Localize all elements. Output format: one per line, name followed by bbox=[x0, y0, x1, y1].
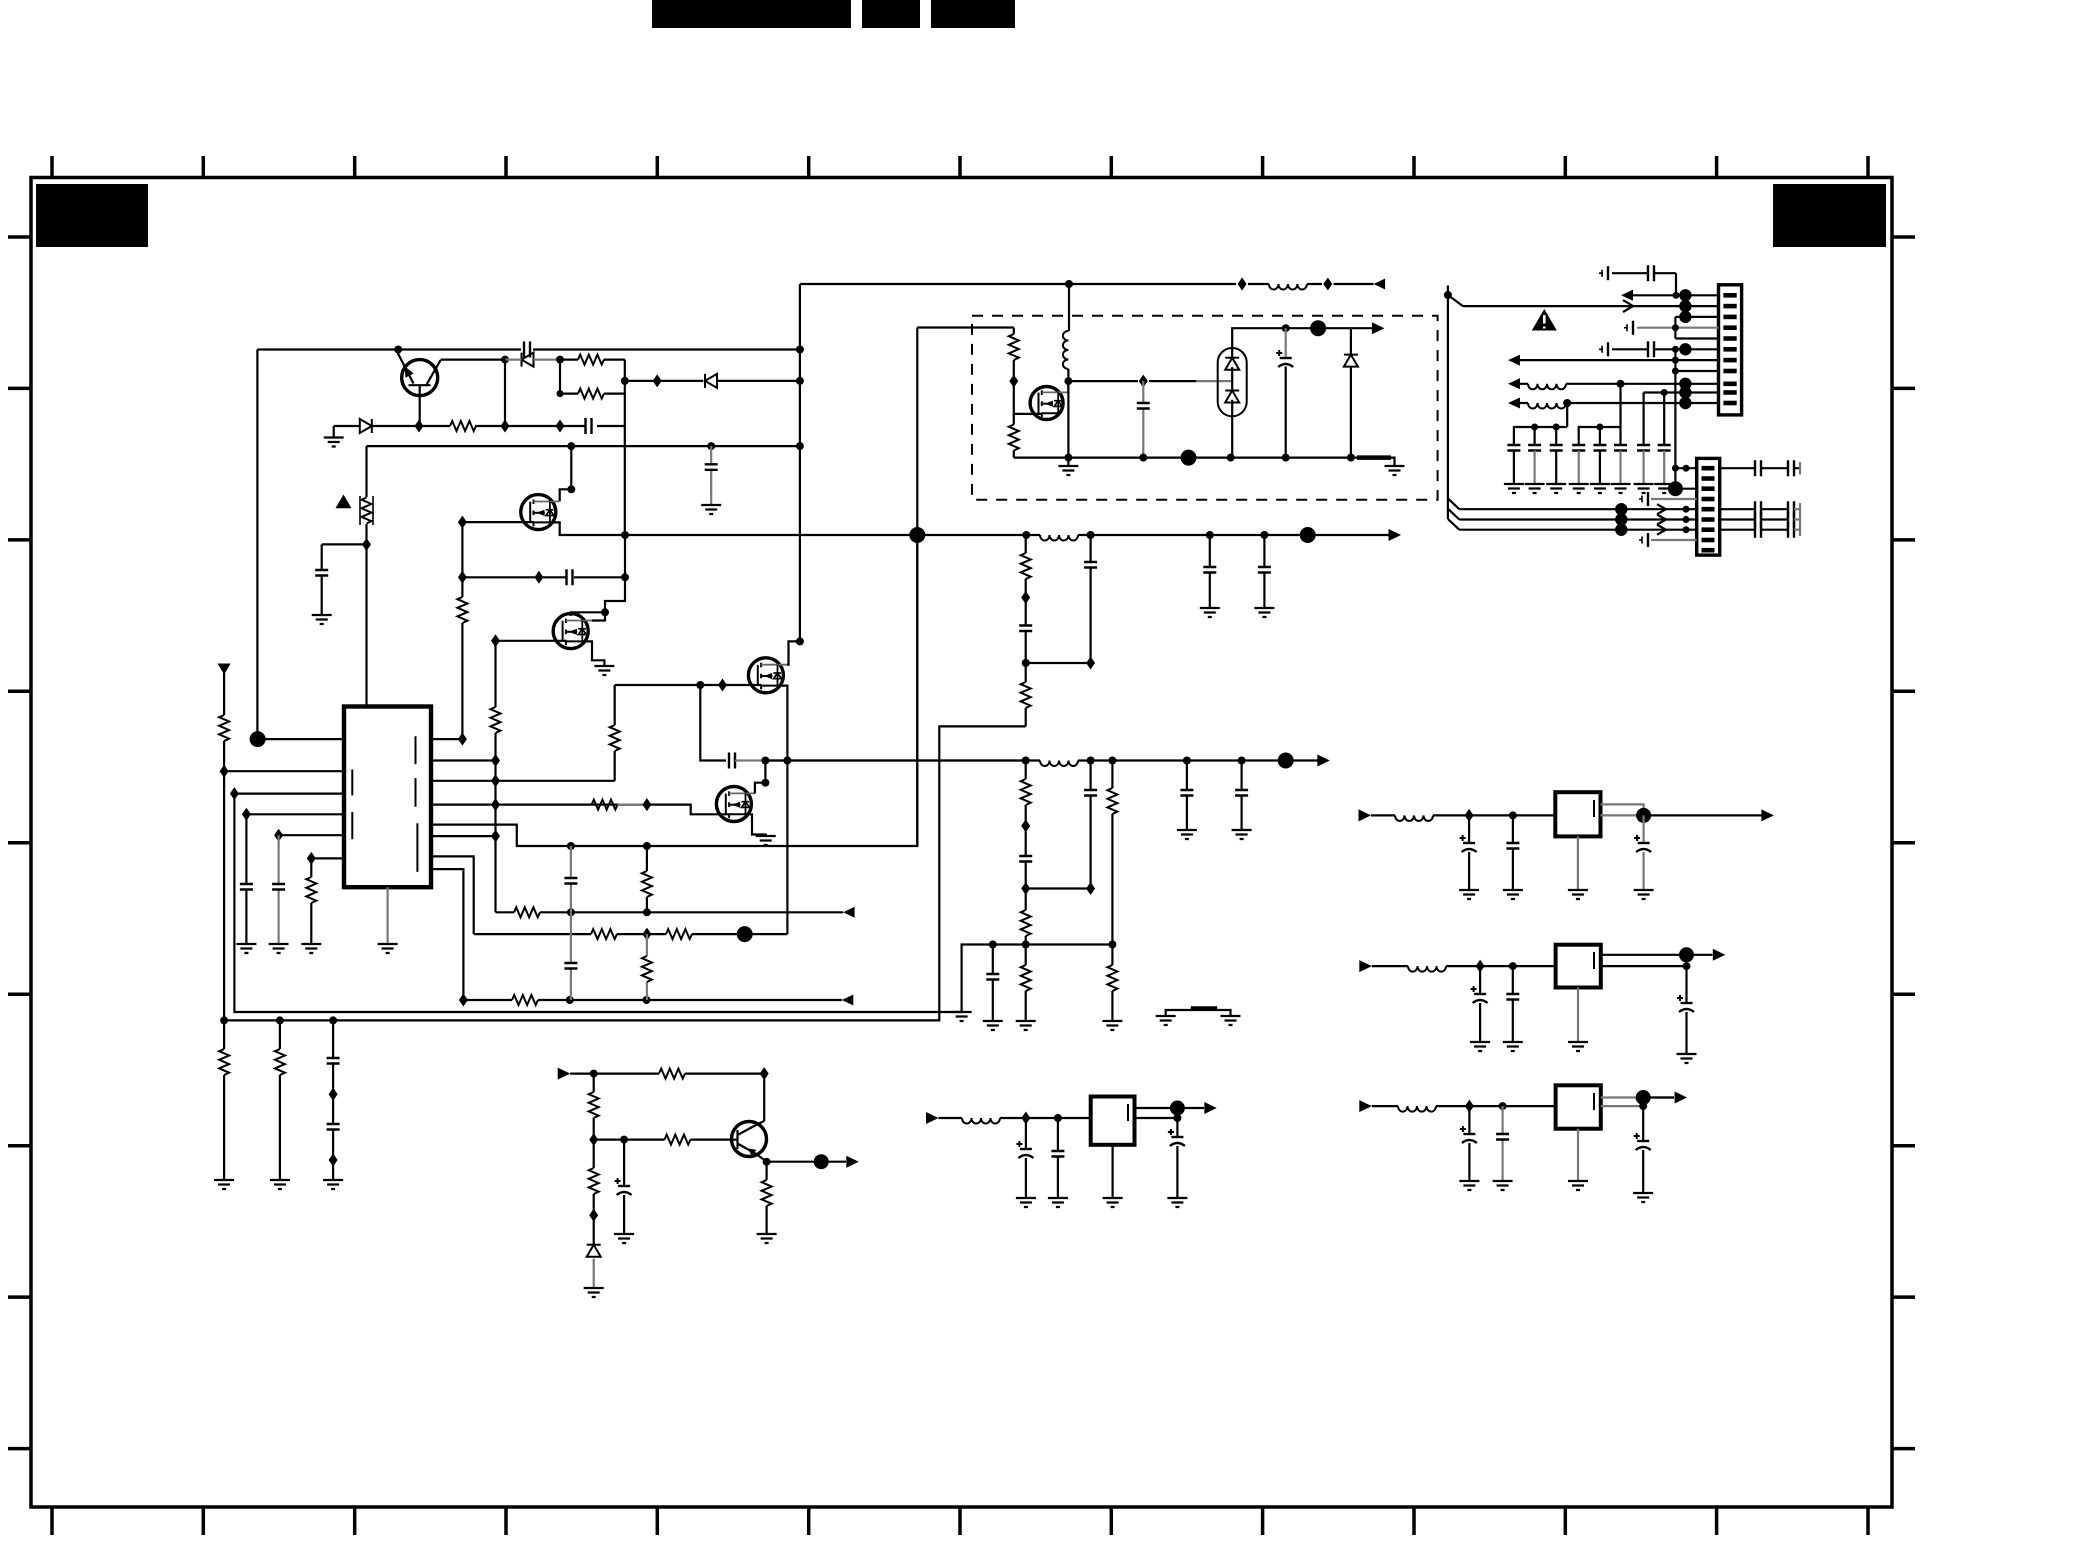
arrow out right bbox=[1317, 755, 1330, 767]
cap C24 bbox=[1512, 966, 1514, 1042]
junction diamond bbox=[1476, 960, 1485, 973]
wire resistor pair verticals bbox=[560, 360, 625, 394]
arrow output bbox=[846, 1156, 859, 1168]
arrow input bbox=[1359, 809, 1372, 821]
capacitor chain below rail bbox=[332, 1020, 334, 1180]
node bbox=[556, 356, 564, 364]
junction diamond bbox=[491, 774, 500, 787]
arrow out right bbox=[1389, 529, 1402, 541]
junction diamond varistor bottom bbox=[362, 538, 371, 551]
caps right of p5-p7 bbox=[1720, 509, 1788, 530]
wire IC right pin7 step down to row934 bbox=[431, 856, 474, 934]
resistor R21 x=1112.4 below rail2 bbox=[1111, 761, 1113, 945]
IC internal pin dashes bbox=[352, 736, 417, 872]
resistor R17 bbox=[512, 995, 538, 1005]
resistor R4 bbox=[450, 421, 476, 431]
wire collector y=359.6 bbox=[441, 359, 506, 361]
bus M bbox=[1579, 384, 1621, 445]
IC U1 body bbox=[344, 707, 431, 888]
wire left vertical x=257.6 from top rail to IC pin1 bbox=[256, 350, 258, 740]
ground sec right bbox=[1385, 466, 1405, 475]
wire M2 bottom step to ground bbox=[582, 641, 604, 666]
wire emitter row y=426 bbox=[334, 425, 560, 427]
node top rail bbox=[1282, 324, 1290, 332]
diode D6 (zener, up) bbox=[587, 1245, 601, 1257]
regulator U3 body bbox=[1556, 945, 1601, 988]
wire CN2 p4 stub cap bbox=[1651, 498, 1697, 500]
arrow output bbox=[1761, 809, 1774, 821]
wire x=700.3 down to rail2 with series cap bbox=[700, 685, 726, 761]
arrow input bbox=[926, 1112, 939, 1124]
wire diagonal to p2 bbox=[1448, 295, 1463, 306]
node x625 row577 bbox=[621, 573, 629, 581]
wire x=495.5 down to row912 bbox=[494, 836, 496, 912]
wire IC right pin6 bbox=[431, 835, 496, 837]
wire sec wire y=381.1 bbox=[1068, 380, 1196, 382]
node bbox=[1022, 531, 1030, 539]
wire input bbox=[1372, 1105, 1556, 1107]
wire diode row y=380.9 bbox=[625, 380, 800, 382]
wire snubber tie right bbox=[1026, 662, 1091, 664]
wire IC right pin5 step down to row846 bbox=[431, 535, 917, 846]
wire IC right pin1 to M1-source column bbox=[431, 738, 462, 740]
junction diamond bbox=[501, 420, 510, 433]
cap C22 output (pol) bbox=[1642, 815, 1644, 890]
wire rail2 right part bbox=[1026, 759, 1322, 761]
wire IC right pin3 bbox=[431, 780, 615, 782]
cap C30 bbox=[1057, 1118, 1059, 1198]
junction diamond bbox=[1465, 809, 1474, 822]
resistor R26 emitter bbox=[765, 1162, 767, 1234]
CN2 pin bars bbox=[1702, 468, 1715, 550]
wire emitter out bbox=[767, 1161, 846, 1163]
transistor Q2 bbox=[732, 1121, 767, 1162]
wire x=234.4 down to wireA bbox=[234, 794, 961, 1012]
wire base feed diagonal bbox=[398, 350, 413, 384]
wire outputs bbox=[1601, 804, 1644, 815]
resistor R23 top bbox=[1013, 328, 1015, 382]
wire CN2 p3 bbox=[1675, 488, 1696, 490]
connector CN2 body bbox=[1697, 458, 1720, 555]
inductor L4 bbox=[1269, 284, 1307, 290]
node row846 x570.9 bbox=[567, 842, 575, 850]
wire M3 gate node on x=800 bbox=[796, 637, 804, 645]
big node bbox=[1300, 527, 1316, 543]
wire p9 row with inductor bbox=[1520, 383, 1719, 385]
wire base row bbox=[594, 1138, 738, 1140]
junction diamond bbox=[642, 798, 651, 811]
wire M2 source lead bbox=[496, 640, 567, 642]
wire entry left x=917.3 bbox=[917, 326, 1014, 328]
wire riser x=961.6 wireA to row 944.5 bbox=[962, 945, 1113, 1013]
redaction bar 1 bbox=[652, 0, 851, 28]
resistor R18 column x=646.9 rows 934-1000 bbox=[646, 934, 648, 1000]
cap C25 output (pol) bbox=[1685, 966, 1687, 1054]
cap C20 (pol) bbox=[1468, 815, 1470, 890]
wire feeder vertical bbox=[1447, 286, 1449, 520]
capacitor C4 bbox=[315, 570, 328, 576]
wire vertical x=625 (424.8 to M2 gate) bbox=[605, 394, 625, 613]
varistor RV1 bbox=[362, 498, 372, 524]
divider column x=593.7 bbox=[593, 1074, 595, 1245]
junction diamond bbox=[653, 374, 662, 387]
wire p10 row bbox=[1644, 391, 1719, 393]
capacitor bank stems bbox=[1535, 427, 1621, 445]
inductor L6 bbox=[1528, 384, 1566, 390]
big node top rail bbox=[1310, 320, 1326, 336]
capacitor C13 x=1090.6 bbox=[1089, 535, 1091, 663]
lower stems to grounds bbox=[1514, 451, 1600, 485]
wire M5 drain step to node bbox=[1066, 381, 1069, 392]
wire IC left pin6 bbox=[311, 857, 344, 859]
wire oval bottom to sec bottom rail bbox=[1231, 416, 1233, 458]
wire row y=577.3 bbox=[462, 576, 625, 578]
snubber 1: resistor/cap column x=1025.7 bbox=[1025, 535, 1027, 726]
inductor L9 bbox=[1408, 966, 1446, 972]
node row846 x646.9 bbox=[643, 842, 651, 850]
wire M3 source step right then down x=787.4 bbox=[778, 686, 788, 935]
cap chain above p1 bbox=[1601, 273, 1676, 295]
wire outputs bbox=[1135, 1108, 1205, 1118]
bus L bbox=[1514, 403, 1567, 445]
wire p5 row bbox=[1675, 337, 1718, 339]
wire outputs bbox=[1601, 1098, 1674, 1107]
resistor R13 bbox=[514, 907, 540, 917]
wire branch left to cap bbox=[322, 544, 367, 615]
bottom rail y=1020.4 bbox=[224, 726, 1026, 1020]
junction diamond bbox=[642, 928, 651, 941]
junction diamond bbox=[760, 1067, 769, 1080]
node R pair out bbox=[621, 377, 629, 385]
junction diamond bbox=[491, 798, 500, 811]
capacitor C12 rail1 bbox=[1263, 535, 1265, 608]
cap pair right of p1 bbox=[1720, 467, 1800, 469]
wire CN2 p6 long bbox=[1459, 518, 1696, 520]
junction diamond pin6 bbox=[491, 830, 500, 843]
wire IC left pin3 bbox=[234, 792, 344, 794]
wire input bbox=[939, 1117, 1091, 1119]
diode D3 (cathode left) bbox=[705, 374, 717, 388]
wire p7 row with back-arrow bbox=[1520, 359, 1719, 361]
resistor R10 bbox=[219, 715, 229, 741]
regulator U2 body bbox=[1555, 792, 1600, 836]
wire outputs bbox=[1601, 955, 1713, 966]
wire long vertical x=799.9 bbox=[799, 284, 801, 641]
resistor R20 below rail bbox=[279, 1020, 281, 1180]
arrow input bbox=[558, 1068, 571, 1080]
capacitor C1 (series in top rail) bbox=[524, 342, 530, 358]
wire M1 drain step to rail1 bbox=[550, 522, 917, 535]
arrow output bbox=[1713, 949, 1726, 961]
wire vertical x=495.5 down to IC rows bbox=[494, 641, 496, 836]
wire M1 source lead bbox=[462, 521, 534, 523]
warning triangle small bbox=[336, 495, 352, 509]
capacitor C11 rail1 bbox=[1209, 535, 1211, 608]
arrow output bbox=[1204, 1102, 1217, 1114]
wire vertical collector-emitter tie x=505 bbox=[504, 360, 506, 426]
inductor L7 bbox=[1528, 403, 1566, 409]
capacitor C16 x=1090.6 bbox=[1089, 761, 1091, 889]
cap C28 output (pol) bbox=[1642, 1106, 1644, 1193]
resistor R8 on x=495.5 bbox=[491, 707, 501, 733]
sec bottom rail bbox=[1014, 458, 1395, 466]
big node IC pin1 left bbox=[250, 731, 266, 747]
junction diamond rail2/x495 bbox=[491, 754, 500, 767]
regulator U5 body bbox=[1091, 1097, 1135, 1145]
cap C27 bbox=[1501, 1106, 1503, 1181]
inductor L11 bbox=[962, 1118, 1000, 1124]
junction diamond bbox=[534, 571, 543, 584]
diode D5 bbox=[1350, 328, 1352, 457]
capacitor C15 rail2 bbox=[1240, 761, 1242, 831]
wire cap column x=246.4 bbox=[245, 814, 247, 944]
wire p4 row with stub cap bbox=[1637, 327, 1719, 329]
resistor R2 top bbox=[578, 355, 604, 365]
junction diamond bbox=[1465, 1100, 1474, 1113]
junction diamond pin2 bbox=[220, 765, 229, 778]
mosfet M5 bbox=[1030, 387, 1068, 420]
emitter node bbox=[763, 1158, 771, 1166]
cap C26 (pol) bbox=[1468, 1106, 1470, 1181]
resistor R7 on x=462.4 bbox=[457, 597, 467, 623]
node rail1/x625 bbox=[621, 531, 629, 539]
resistor R14 column x=646.9 rows 846-912 bbox=[646, 846, 648, 912]
wire M3 left lead row y=685 bbox=[615, 684, 762, 686]
warning triangle bbox=[1532, 309, 1557, 331]
row 912.3: resistor, caps columns, arrow bbox=[496, 911, 844, 913]
snubber 2 column x=1025.7 bbox=[1025, 761, 1027, 1022]
node bbox=[796, 377, 804, 385]
junction diamond pin4 bbox=[242, 808, 251, 821]
arrow sec out (points right) bbox=[1372, 322, 1385, 334]
resistor R19 below rail bbox=[223, 1020, 225, 1180]
cap C29 (pol) bbox=[1025, 1118, 1027, 1198]
dual diode oval D4 bbox=[1218, 348, 1247, 416]
redaction bar 2 bbox=[862, 0, 920, 28]
wire M2 gate into circle bbox=[592, 612, 605, 620]
wire p3 row + bracket bbox=[1675, 317, 1718, 339]
junction diamond gate node bbox=[1009, 375, 1018, 388]
wire cap column x=278.6 bbox=[278, 835, 280, 944]
wire IC top feed vertical x=366.5 bbox=[365, 446, 367, 706]
mosfet M2 bbox=[553, 614, 592, 649]
ground bracket pair bbox=[1166, 1010, 1231, 1016]
arrow input bbox=[1359, 960, 1372, 972]
junction diamond M1 source bbox=[458, 516, 467, 529]
wire oval top to sec top rail bbox=[1232, 328, 1372, 348]
wire resistor column x=311.3 bbox=[310, 858, 312, 944]
wire CN2 p5 long bbox=[1459, 508, 1696, 510]
wire M4 gate approach bbox=[647, 805, 730, 815]
wire M3 gate step bbox=[787, 641, 800, 664]
connector CN1 body bbox=[1719, 285, 1742, 415]
diode D1 (anode left) bbox=[360, 419, 372, 433]
mosfet M4 bbox=[716, 787, 755, 822]
big node rail1/x917 bbox=[909, 527, 925, 543]
title redaction block top-right bbox=[1773, 184, 1886, 247]
resistor R11 bbox=[306, 877, 316, 903]
inductor L8 bbox=[1395, 815, 1433, 821]
capacitor C6 series in row577 bbox=[567, 569, 573, 585]
wire CN2 p7 long bbox=[1459, 529, 1696, 531]
junction diamond bbox=[1139, 375, 1148, 388]
wire IC right pin2 = rail2 start bbox=[431, 759, 496, 761]
junction diamond M2 source bbox=[491, 634, 500, 647]
row 1000 bbox=[463, 999, 841, 1001]
inductor L10 bbox=[1398, 1106, 1436, 1112]
junction diamond emitter bbox=[415, 420, 424, 433]
wire fan diagonals bbox=[1448, 498, 1459, 529]
junction diamond bbox=[718, 679, 727, 692]
reg ground pin bbox=[1577, 1129, 1579, 1181]
wire CN2 p1 bbox=[1675, 467, 1696, 469]
resistor R15 bbox=[591, 929, 617, 939]
capacitor C18 bbox=[1142, 381, 1144, 458]
wire input row bbox=[570, 1072, 764, 1074]
wire IC left pin2 bbox=[224, 770, 344, 772]
capacitor plates (8x) bbox=[1507, 445, 1520, 451]
wire riser x=614.7 from row3 up through resistor to y=685 bbox=[614, 685, 616, 781]
resistor R22 x=1112.4 bbox=[1111, 945, 1113, 1022]
node M2 gate step bbox=[601, 608, 609, 616]
row 944.5 nodes and components bbox=[989, 941, 997, 949]
wire CN1 junction vertical bbox=[1674, 349, 1676, 489]
wire IC left pin4 bbox=[246, 813, 344, 815]
wire vertical x=462.4 M1 source down to IC bbox=[461, 522, 463, 739]
cap C23 (pol) bbox=[1479, 966, 1481, 1042]
redaction bar 3 bbox=[931, 0, 1015, 28]
arrow input bbox=[1359, 1100, 1372, 1112]
capacitor C7 bbox=[240, 884, 253, 890]
resistor R3 bottom bbox=[578, 389, 604, 399]
resistor R16 bbox=[666, 929, 692, 939]
node bbox=[220, 1016, 228, 1024]
capacitor C2 series bbox=[586, 418, 592, 434]
inductor L3 bbox=[1040, 761, 1078, 767]
resistor R25 base bbox=[665, 1135, 691, 1145]
wire p8 row bbox=[1675, 370, 1718, 372]
electrolytic cap C19 bbox=[1285, 328, 1287, 358]
wire CN2 p8 stub cap bbox=[1651, 539, 1697, 541]
ground under D1 bbox=[333, 426, 335, 438]
big node bbox=[737, 926, 753, 942]
node collector bbox=[501, 356, 509, 364]
resistor R24b bbox=[659, 1069, 685, 1079]
wire p1 row with back-arrow bbox=[1633, 294, 1719, 296]
wire x=917.3 vertical bbox=[916, 328, 918, 847]
cap C32 (pol) x=624.1 bbox=[623, 1140, 625, 1234]
inductor L2 bbox=[1040, 535, 1078, 541]
cap C21 bbox=[1512, 815, 1514, 890]
down arrow supply marker bbox=[218, 664, 231, 675]
transistor Q1 bbox=[402, 360, 441, 426]
wire x=1068.4 drain to bottom rail bbox=[1067, 381, 1069, 458]
wire M5 source column resistor R24 bbox=[1013, 414, 1015, 458]
inductor L5 vertical bbox=[1063, 331, 1069, 369]
capacitor C8 bbox=[272, 884, 285, 890]
capacitor C14 rail2 bbox=[1186, 761, 1188, 831]
wire snubber2 tie right bbox=[1026, 887, 1091, 889]
junction diamond row577 bbox=[458, 571, 467, 584]
mosfet M3 bbox=[748, 658, 787, 693]
capacitor C9 column x=570.9 rows 846-912 bbox=[570, 846, 572, 912]
wire drop from top wire into dashed box x=1069 bbox=[1068, 284, 1070, 331]
junction diamond bbox=[458, 733, 467, 746]
diode D2 (cathode left) bbox=[522, 353, 534, 367]
node bbox=[696, 681, 704, 689]
junction diamond bbox=[1021, 1112, 1030, 1125]
wire left column x=224.1 bbox=[223, 664, 225, 1021]
junction diamond pin5 bbox=[274, 829, 283, 842]
dashed boundary box bbox=[972, 316, 1438, 500]
junction diamond pin6 bbox=[307, 852, 316, 865]
wire p2 row from fan top bbox=[1463, 305, 1719, 307]
node dot base feed bbox=[394, 346, 402, 354]
wire M4 source step to ground bbox=[746, 814, 766, 836]
resistor R9 on riser bbox=[610, 725, 620, 751]
wire IC bottom pin bbox=[387, 887, 389, 944]
reg ground pin bbox=[1577, 988, 1579, 1043]
wire IC right pin8 step down to row1000 bbox=[431, 869, 463, 1000]
wire top y=284 bbox=[800, 283, 1374, 285]
wire gate node down to source stub bbox=[1014, 381, 1042, 414]
wire x=765.4 to rail2 bbox=[764, 761, 766, 783]
mosfet M1 bbox=[521, 495, 560, 530]
capacitor C3 to ground from y=446 rail bbox=[710, 446, 712, 505]
ground bbox=[312, 615, 332, 624]
capacitor C17 x=992.8 bbox=[992, 945, 994, 1022]
resistor R12 pin4 row bbox=[590, 803, 592, 805]
capacitor C10 column x=570 rows 912-1000 bbox=[570, 912, 572, 1000]
arrow output bbox=[1675, 1092, 1688, 1104]
ground row (8x) bbox=[1504, 484, 1524, 493]
wire collector drop bbox=[763, 1074, 765, 1121]
node on rail2 bbox=[783, 757, 791, 765]
wire IC right pin4 bbox=[431, 803, 647, 805]
wire top rail y=349.5 bbox=[257, 348, 800, 350]
arrow input left-point bbox=[842, 995, 854, 1006]
arrow input left-point bbox=[843, 907, 855, 918]
wire input bbox=[1371, 814, 1555, 816]
node bbox=[1022, 757, 1030, 765]
junction diamond pin3 bbox=[230, 787, 239, 800]
wire p6 row with cap chain bbox=[1601, 348, 1719, 350]
big node bbox=[1278, 753, 1294, 769]
cap C31 output (pol) bbox=[1176, 1118, 1178, 1198]
wire IC left pin5 bbox=[279, 834, 344, 836]
title redaction block top-left bbox=[36, 184, 148, 247]
ground under M5 column bbox=[1067, 458, 1069, 466]
wireA ground at right end bbox=[952, 1012, 972, 1021]
wire rail1 from big node to arrow bbox=[917, 534, 1393, 536]
arrow end (points back left) bbox=[1374, 279, 1386, 290]
wire y=446.1 bbox=[367, 445, 800, 447]
reg ground pin bbox=[1577, 836, 1579, 890]
CN1 pin bars bbox=[1723, 295, 1736, 403]
node bbox=[1087, 531, 1095, 539]
wire M4 drain step to node bbox=[755, 783, 766, 794]
reg ground pin bbox=[1111, 1145, 1113, 1198]
wire input bbox=[1372, 965, 1556, 967]
wire M1 gate riser x=571.3 bbox=[560, 446, 572, 501]
row 934.1 bbox=[474, 933, 788, 935]
wire emitter row continues: diamond, cap to x=624.8 bbox=[560, 425, 625, 427]
regulator U4 body bbox=[1556, 1085, 1601, 1128]
wire p11 row with inductor bbox=[1520, 402, 1719, 404]
junction diamond bbox=[459, 994, 468, 1007]
wire IC left pin1 bbox=[258, 738, 344, 740]
wire M2 drain bend bbox=[571, 612, 605, 616]
